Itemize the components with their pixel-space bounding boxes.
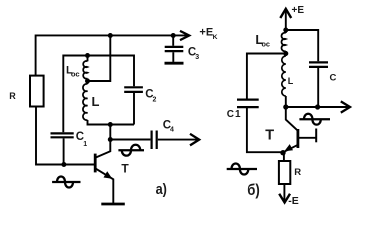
svg-text:4: 4 — [170, 127, 174, 134]
svg-text:2: 2 — [153, 96, 157, 103]
svg-text:ос: ос — [71, 70, 80, 79]
svg-text:R: R — [9, 91, 16, 101]
svg-text:1: 1 — [83, 141, 87, 148]
svg-text:C: C — [330, 73, 337, 84]
svg-text:+E: +E — [199, 27, 213, 39]
svg-text:-E: -E — [288, 195, 299, 207]
svg-text:R: R — [294, 167, 301, 178]
svg-text:T: T — [265, 127, 274, 143]
svg-text:K: K — [213, 34, 218, 41]
svg-text:L: L — [288, 76, 294, 86]
svg-text:б): б) — [247, 182, 260, 199]
svg-text:а): а) — [156, 180, 167, 197]
svg-text:C: C — [227, 109, 234, 120]
svg-text:+E: +E — [292, 5, 305, 16]
svg-text:3: 3 — [195, 54, 199, 61]
svg-text:1: 1 — [235, 109, 241, 120]
svg-text:T: T — [121, 162, 129, 176]
svg-text:L: L — [92, 94, 100, 109]
svg-text:ос: ос — [262, 39, 270, 48]
